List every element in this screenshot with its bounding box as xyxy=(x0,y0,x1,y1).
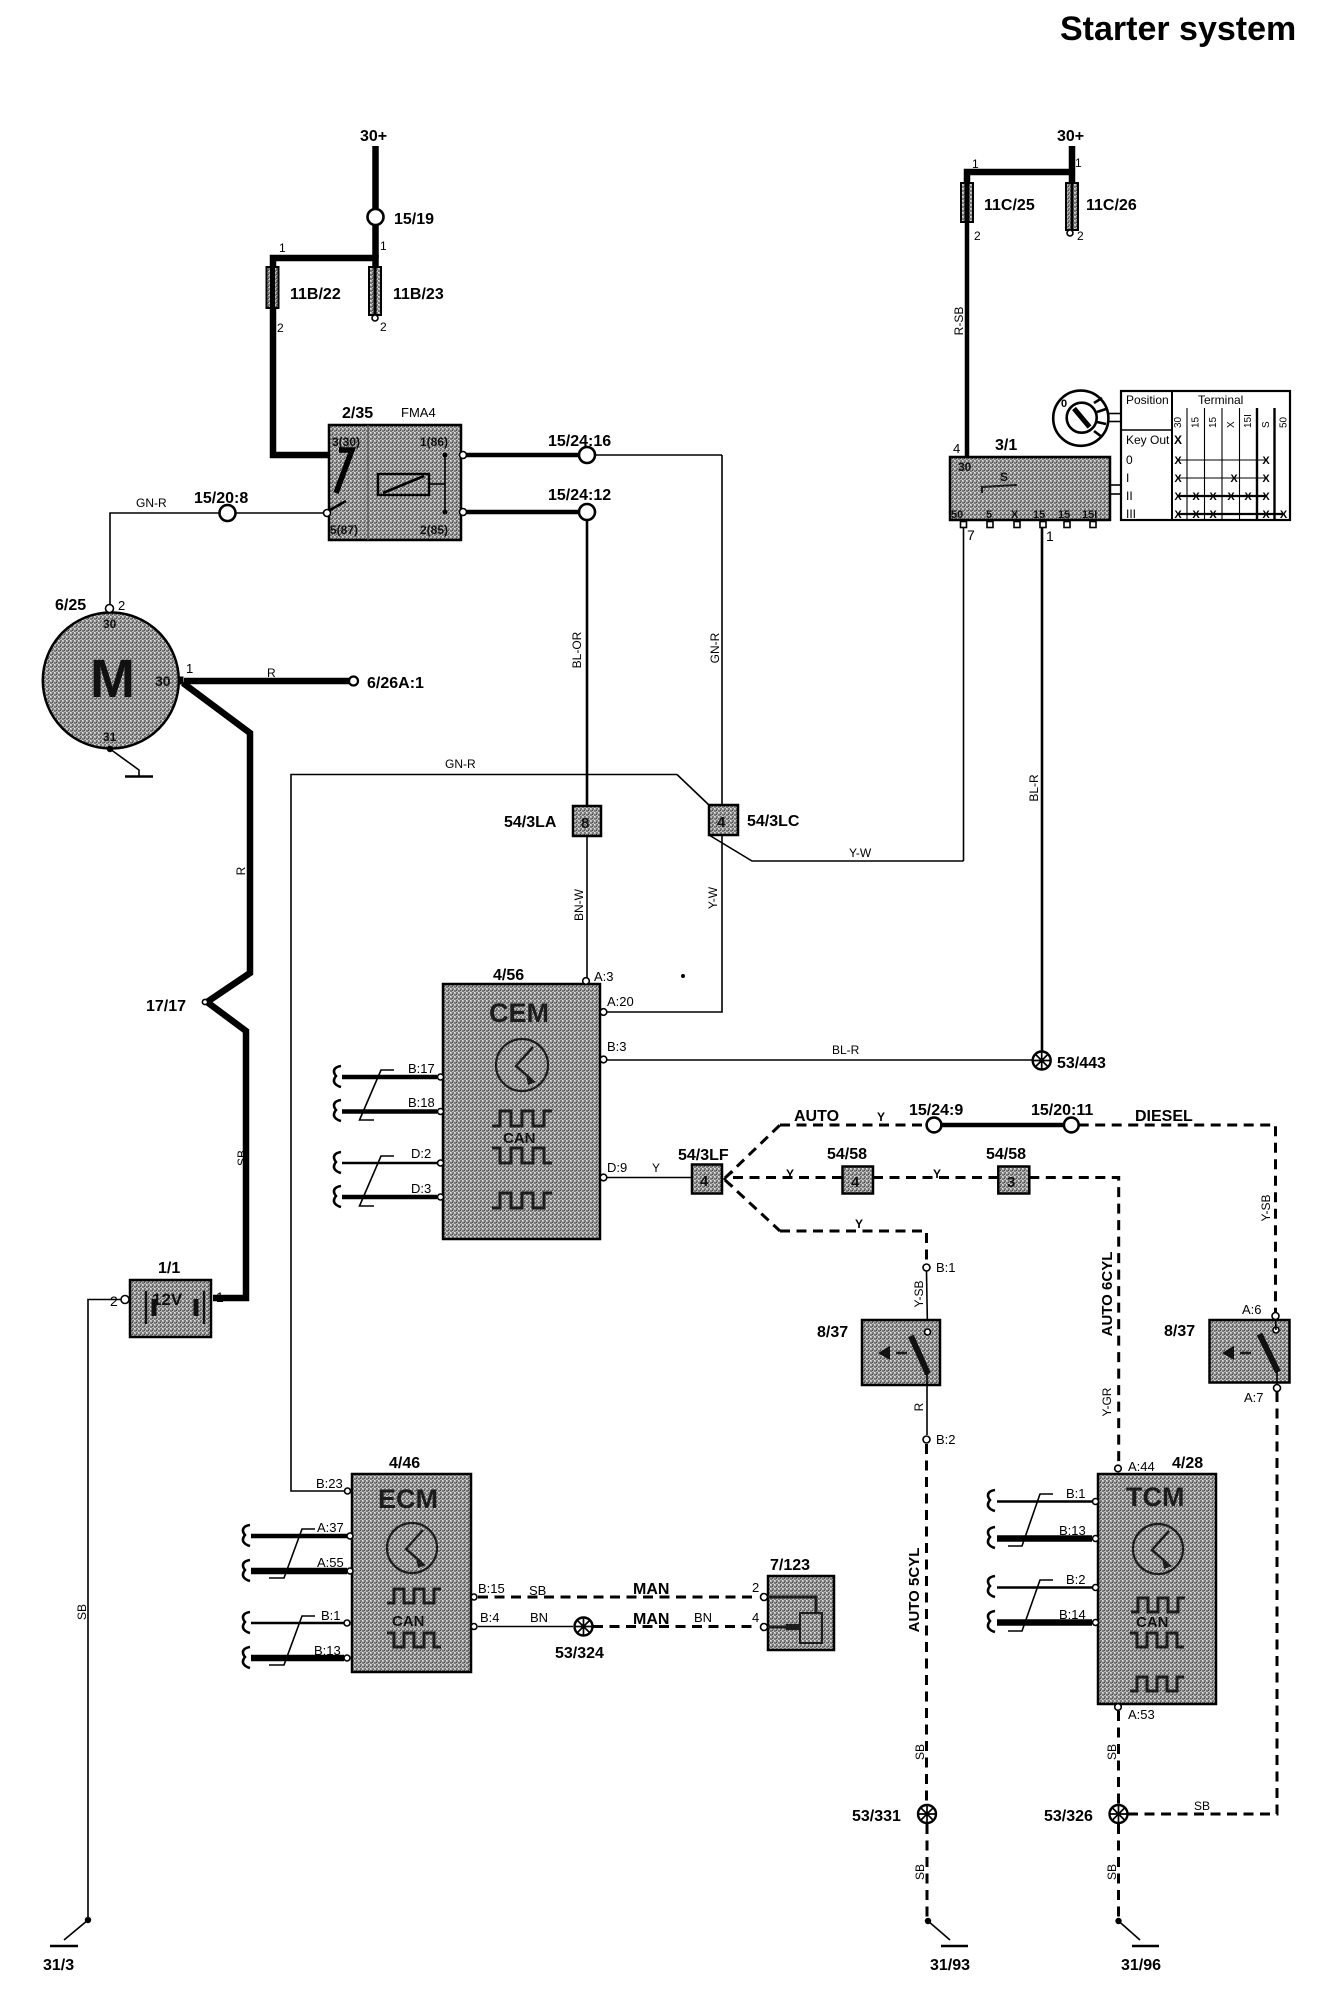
svg-text:X: X xyxy=(1262,473,1270,485)
svg-text:CEM: CEM xyxy=(489,998,549,1028)
svg-text:2: 2 xyxy=(277,321,284,335)
svg-text:X: X xyxy=(1244,491,1252,503)
svg-text:0: 0 xyxy=(1126,453,1133,467)
svg-text:B:1: B:1 xyxy=(936,1260,956,1275)
svg-text:54/3LC: 54/3LC xyxy=(747,813,800,830)
svg-text:X: X xyxy=(1174,455,1182,467)
svg-text:11B/22: 11B/22 xyxy=(290,286,341,303)
svg-text:2: 2 xyxy=(974,229,981,243)
svg-text:S: S xyxy=(1000,470,1008,484)
svg-text:BL-R: BL-R xyxy=(1027,774,1041,802)
svg-text:1: 1 xyxy=(186,661,193,676)
svg-text:B:1: B:1 xyxy=(321,1608,341,1623)
svg-text:I: I xyxy=(1126,471,1129,485)
svg-text:4/28: 4/28 xyxy=(1172,1455,1203,1472)
svg-text:30: 30 xyxy=(958,460,972,474)
svg-text:53/326: 53/326 xyxy=(1044,1808,1093,1825)
svg-text:X: X xyxy=(1227,491,1235,503)
svg-text:50: 50 xyxy=(951,509,963,521)
svg-text:B:17: B:17 xyxy=(408,1061,435,1076)
svg-text:B:3: B:3 xyxy=(607,1039,627,1054)
svg-text:BN-W: BN-W xyxy=(572,888,586,921)
svg-text:4: 4 xyxy=(752,1610,759,1625)
svg-text:Starter system: Starter system xyxy=(1060,10,1296,48)
svg-text:Position: Position xyxy=(1126,393,1169,407)
svg-text:Y: Y xyxy=(652,1161,660,1175)
svg-text:1: 1 xyxy=(279,241,286,255)
svg-text:BL-R: BL-R xyxy=(832,1043,860,1057)
svg-text:11B/23: 11B/23 xyxy=(393,286,444,303)
svg-text:7: 7 xyxy=(967,527,975,543)
svg-text:Y-SB: Y-SB xyxy=(1259,1195,1273,1222)
svg-text:B:15: B:15 xyxy=(478,1581,505,1596)
svg-text:4: 4 xyxy=(851,1174,860,1191)
svg-text:2/35: 2/35 xyxy=(342,405,373,422)
svg-text:X: X xyxy=(1209,509,1217,521)
svg-text:X: X xyxy=(1192,509,1200,521)
svg-text:X: X xyxy=(1262,455,1270,467)
svg-text:53/331: 53/331 xyxy=(852,1808,901,1825)
svg-text:31: 31 xyxy=(103,730,117,744)
svg-text:1: 1 xyxy=(972,157,979,171)
svg-text:BL-OR: BL-OR xyxy=(570,631,584,668)
svg-text:II: II xyxy=(1126,489,1133,503)
svg-text:X: X xyxy=(1226,421,1237,428)
svg-text:30: 30 xyxy=(155,673,171,689)
svg-text:MAN: MAN xyxy=(633,1581,669,1598)
svg-text:15/24:9: 15/24:9 xyxy=(909,1102,963,1119)
svg-text:GN-R: GN-R xyxy=(136,496,167,510)
svg-text:X: X xyxy=(1174,433,1182,447)
svg-text:DIESEL: DIESEL xyxy=(1135,1108,1193,1125)
svg-text:BN: BN xyxy=(694,1610,712,1625)
svg-text:B:18: B:18 xyxy=(408,1095,435,1110)
svg-text:3/1: 3/1 xyxy=(995,437,1017,454)
svg-text:S: S xyxy=(1261,421,1272,428)
svg-text:Y-W: Y-W xyxy=(706,886,720,909)
svg-text:GN-R: GN-R xyxy=(445,757,476,771)
svg-text:TCM: TCM xyxy=(1126,1482,1184,1512)
svg-text:15I: 15I xyxy=(1243,414,1254,428)
svg-text:2: 2 xyxy=(752,1580,759,1595)
svg-text:15/20:11: 15/20:11 xyxy=(1031,1102,1093,1119)
svg-text:6/26A:1: 6/26A:1 xyxy=(367,675,424,692)
svg-text:30: 30 xyxy=(1173,416,1184,428)
svg-text:SB: SB xyxy=(913,1864,927,1880)
svg-text:X: X xyxy=(1174,509,1182,521)
svg-text:1: 1 xyxy=(380,239,387,253)
svg-text:1/1: 1/1 xyxy=(158,1260,180,1277)
svg-text:7/123: 7/123 xyxy=(770,1557,810,1574)
svg-text:Terminal: Terminal xyxy=(1198,393,1243,407)
svg-text:MAN: MAN xyxy=(633,1611,669,1628)
svg-text:31/3: 31/3 xyxy=(43,1957,74,1974)
svg-text:2: 2 xyxy=(1077,229,1084,243)
svg-text:A:20: A:20 xyxy=(607,994,634,1009)
svg-text:0: 0 xyxy=(1061,398,1067,410)
svg-text:15/24:12: 15/24:12 xyxy=(548,487,611,504)
svg-text:4: 4 xyxy=(700,1173,709,1190)
svg-text:4: 4 xyxy=(717,814,726,831)
svg-text:6/25: 6/25 xyxy=(55,597,86,614)
svg-text:4: 4 xyxy=(953,441,960,456)
svg-text:B:1: B:1 xyxy=(1066,1486,1086,1501)
svg-text:GN-R: GN-R xyxy=(708,632,722,663)
svg-text:R: R xyxy=(234,866,248,875)
svg-text:4/46: 4/46 xyxy=(389,1455,420,1472)
svg-text:15/20:8: 15/20:8 xyxy=(194,490,248,507)
svg-text:54/58: 54/58 xyxy=(986,1146,1026,1163)
svg-text:30+: 30+ xyxy=(360,128,387,145)
svg-text:1(86): 1(86) xyxy=(420,435,448,449)
svg-text:11C/25: 11C/25 xyxy=(984,197,1035,214)
svg-text:X: X xyxy=(1011,509,1019,521)
svg-text:17/17: 17/17 xyxy=(146,998,186,1015)
svg-text:15: 15 xyxy=(1191,416,1202,428)
svg-text:III: III xyxy=(1126,507,1136,521)
svg-text:54/3LA: 54/3LA xyxy=(504,814,557,831)
svg-text:B:4: B:4 xyxy=(480,1610,500,1625)
svg-text:5: 5 xyxy=(986,509,992,521)
svg-text:4/56: 4/56 xyxy=(493,967,524,984)
svg-text:R: R xyxy=(912,1402,926,1411)
svg-text:15: 15 xyxy=(1033,509,1045,521)
svg-text:SB: SB xyxy=(529,1583,546,1598)
svg-text:15: 15 xyxy=(1208,416,1219,428)
svg-text:X: X xyxy=(1280,509,1288,521)
svg-text:15/19: 15/19 xyxy=(394,211,434,228)
svg-text:B:2: B:2 xyxy=(1066,1572,1086,1587)
svg-text:X: X xyxy=(1174,473,1182,485)
svg-text:Y-SB: Y-SB xyxy=(912,1281,926,1308)
svg-text:2: 2 xyxy=(110,1293,118,1309)
svg-text:8/37: 8/37 xyxy=(817,1324,848,1341)
svg-text:Y: Y xyxy=(933,1167,941,1181)
svg-text:FMA4: FMA4 xyxy=(401,405,436,420)
svg-text:D:2: D:2 xyxy=(411,1146,431,1161)
svg-text:SB: SB xyxy=(235,1150,249,1166)
svg-text:50: 50 xyxy=(1279,416,1290,428)
svg-text:X: X xyxy=(1230,473,1238,485)
svg-text:A:3: A:3 xyxy=(594,969,614,984)
svg-text:A:44: A:44 xyxy=(1128,1459,1155,1474)
svg-text:R-SB: R-SB xyxy=(952,307,966,336)
svg-text:CAN: CAN xyxy=(503,1130,536,1147)
svg-text:15I: 15I xyxy=(1082,509,1097,521)
svg-text:X: X xyxy=(1192,491,1200,503)
svg-text:Key Out: Key Out xyxy=(1126,433,1170,447)
svg-text:31/96: 31/96 xyxy=(1121,1957,1161,1974)
svg-text:12V: 12V xyxy=(152,1290,183,1309)
svg-text:1: 1 xyxy=(1075,156,1082,170)
svg-text:M: M xyxy=(90,649,135,709)
svg-text:SB: SB xyxy=(1105,1744,1119,1760)
svg-text:Y: Y xyxy=(855,1217,863,1231)
svg-text:A:53: A:53 xyxy=(1128,1707,1155,1722)
svg-text:X: X xyxy=(1174,491,1182,503)
svg-text:CAN: CAN xyxy=(392,1613,425,1630)
svg-text:3(30): 3(30) xyxy=(332,435,360,449)
svg-text:X: X xyxy=(1262,491,1270,503)
svg-text:2: 2 xyxy=(118,598,125,613)
svg-text:BN: BN xyxy=(530,1610,548,1625)
svg-text:CAN: CAN xyxy=(1136,1614,1169,1631)
svg-text:R: R xyxy=(267,666,276,680)
svg-text:D:9: D:9 xyxy=(607,1160,627,1175)
svg-text:AUTO: AUTO xyxy=(794,1108,839,1125)
svg-text:X: X xyxy=(1262,509,1270,521)
svg-text:SB: SB xyxy=(75,1604,89,1620)
svg-text:2: 2 xyxy=(380,320,387,334)
svg-text:30: 30 xyxy=(103,617,117,631)
svg-text:31/93: 31/93 xyxy=(930,1957,970,1974)
svg-text:11C/26: 11C/26 xyxy=(1086,197,1137,214)
svg-text:AUTO 5CYL: AUTO 5CYL xyxy=(906,1548,923,1633)
svg-text:X: X xyxy=(1209,491,1217,503)
svg-text:15/24:16: 15/24:16 xyxy=(548,433,611,450)
svg-text:Y: Y xyxy=(877,1110,885,1124)
svg-text:ECM: ECM xyxy=(378,1484,438,1514)
svg-text:SB: SB xyxy=(1194,1799,1210,1813)
svg-text:SB: SB xyxy=(1105,1864,1119,1880)
svg-text:3: 3 xyxy=(1007,1174,1015,1191)
svg-text:Y-W: Y-W xyxy=(849,846,872,860)
svg-text:1: 1 xyxy=(1046,528,1054,544)
svg-text:SB: SB xyxy=(913,1744,927,1760)
svg-text:54/58: 54/58 xyxy=(827,1146,867,1163)
svg-text:54/3LF: 54/3LF xyxy=(678,1147,729,1164)
svg-text:2(85): 2(85) xyxy=(420,523,448,537)
svg-text:53/443: 53/443 xyxy=(1057,1055,1106,1072)
svg-text:B:23: B:23 xyxy=(316,1476,343,1491)
svg-text:8: 8 xyxy=(581,815,589,832)
svg-text:5(87): 5(87) xyxy=(330,523,358,537)
svg-text:Y-GR: Y-GR xyxy=(1100,1387,1114,1416)
svg-text:AUTO 6CYL: AUTO 6CYL xyxy=(1099,1252,1116,1337)
svg-text:A:37: A:37 xyxy=(317,1520,344,1535)
svg-text:15: 15 xyxy=(1058,509,1070,521)
svg-text:A:6: A:6 xyxy=(1242,1302,1262,1317)
svg-text:8/37: 8/37 xyxy=(1164,1323,1195,1340)
svg-text:B:2: B:2 xyxy=(936,1432,956,1447)
svg-text:D:3: D:3 xyxy=(411,1181,431,1196)
svg-text:A:7: A:7 xyxy=(1244,1390,1264,1405)
svg-text:30+: 30+ xyxy=(1057,128,1084,145)
svg-text:53/324: 53/324 xyxy=(555,1645,604,1662)
svg-text:Y: Y xyxy=(786,1167,794,1181)
svg-text:1: 1 xyxy=(216,1289,224,1305)
